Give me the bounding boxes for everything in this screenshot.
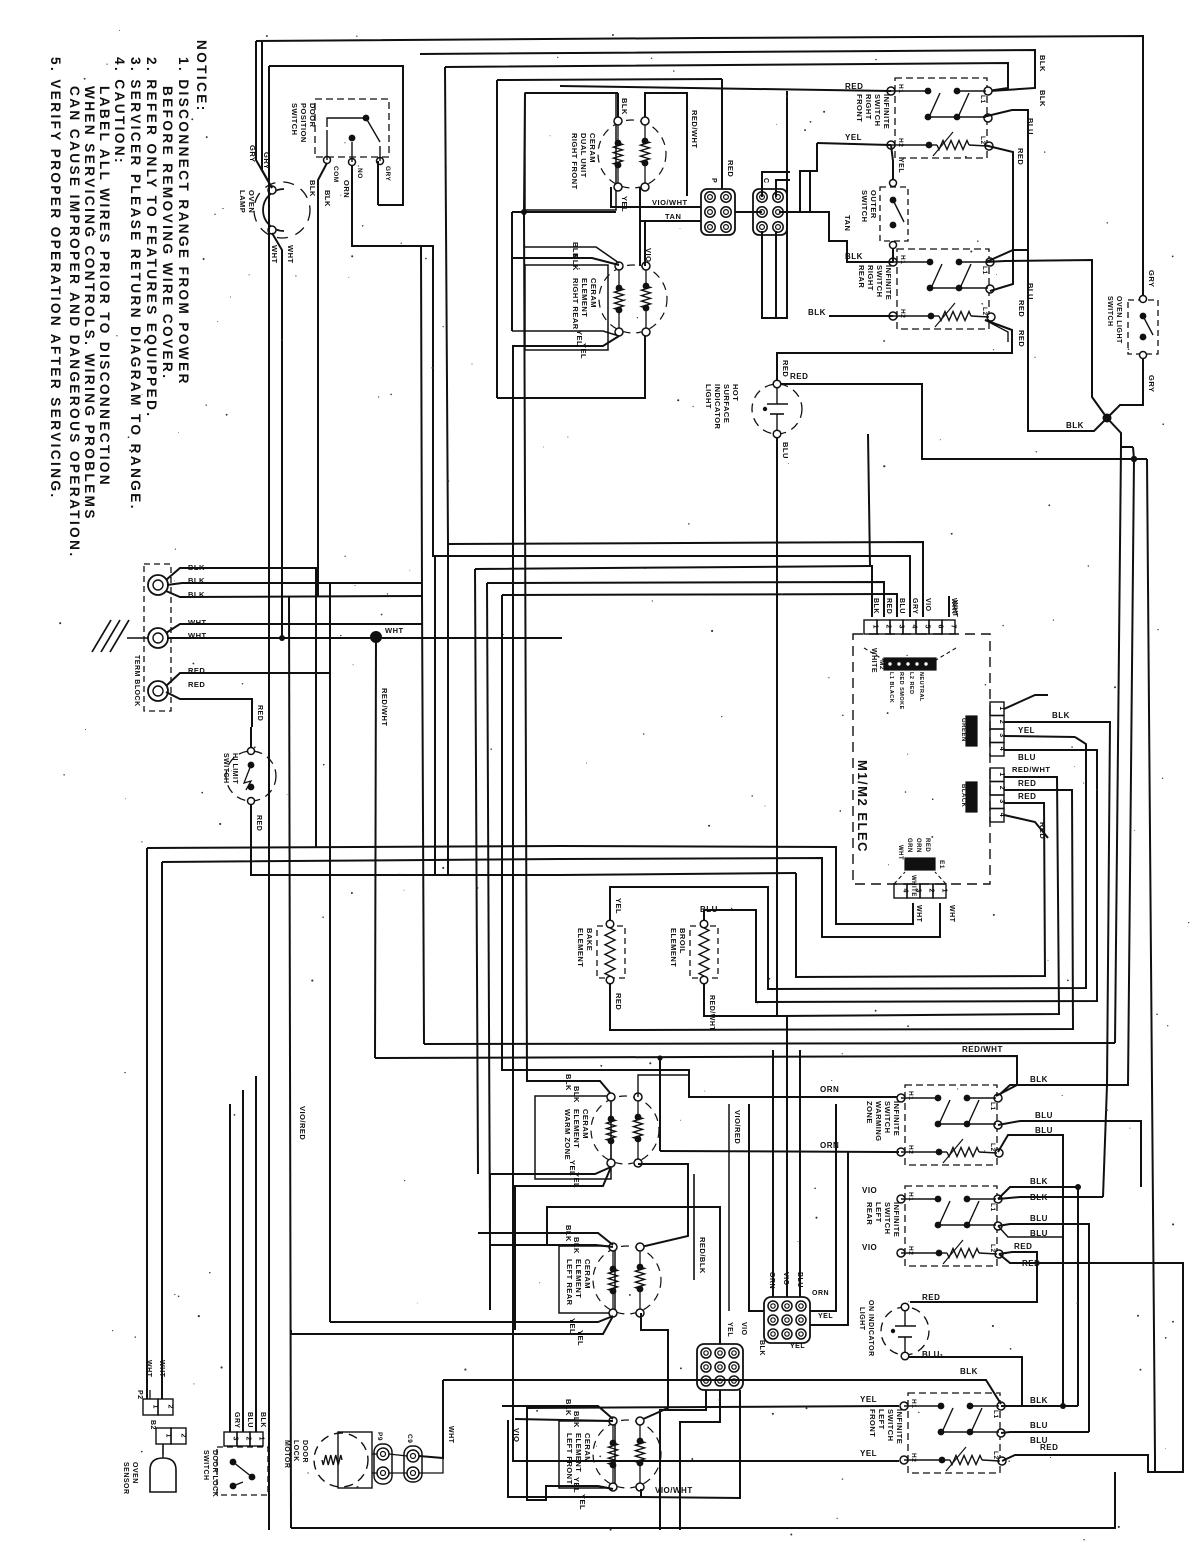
svg-text:4. CAUTION:: 4. CAUTION:	[112, 57, 127, 165]
wire BLK1	[166, 568, 316, 848]
wire broil top	[704, 750, 1097, 1002]
wire conn1-conn2	[735, 211, 762, 213]
element ceram element warm zone	[535, 1096, 611, 1179]
svg-text:LEFT: LEFT	[874, 1202, 883, 1223]
wire right vert V2	[998, 447, 1134, 1096]
wire dl gry up	[229, 1104, 231, 1432]
svg-text:WHT: WHT	[385, 626, 404, 635]
E1 connector bar	[905, 858, 935, 870]
wire dl blk up	[255, 1076, 257, 1432]
svg-text:VIO: VIO	[862, 1186, 877, 1195]
svg-text:5. VERIFY PROPER OPERATION AFT: 5. VERIFY PROPER OPERATION AFTER SERVICI…	[48, 57, 63, 500]
wire left bus down2	[161, 862, 163, 1399]
wire top trunk T3	[445, 63, 1008, 91]
svg-text:BLK: BLK	[1030, 1193, 1048, 1202]
junction dot 459	[1131, 456, 1137, 462]
door lock motor	[314, 1433, 368, 1487]
wire vert 290	[289, 597, 291, 1528]
svg-text:WARMING: WARMING	[874, 1101, 883, 1142]
wire door switch frame	[269, 66, 403, 205]
svg-text:L2 RED: L2 RED	[908, 672, 914, 695]
wire bus y594	[502, 594, 897, 617]
wire vio wht right	[641, 1390, 740, 1498]
connector 9-pin bottom	[697, 1344, 743, 1390]
svg-text:BLU: BLU	[898, 598, 905, 614]
wire blk rr L1a	[986, 250, 1028, 262]
junction 660 1058	[657, 1055, 662, 1060]
svg-text:TAN: TAN	[665, 212, 681, 221]
svg-text:RED: RED	[726, 160, 735, 177]
svg-text:CERAM: CERAM	[583, 1259, 592, 1289]
wire vert 422	[421, 246, 424, 1044]
svg-text:L1: L1	[992, 1410, 999, 1419]
wire vert 478	[475, 569, 478, 1174]
wire lr L2 blu2	[998, 1226, 1063, 1237]
wire WHT from oven lamp	[272, 233, 282, 638]
wire lr L3 red	[910, 1252, 1037, 1302]
wire dl mid links	[230, 1461, 233, 1463]
wire motor to p9	[372, 1453, 377, 1455]
svg-text:L2: L2	[981, 307, 988, 316]
svg-text:WHITE: WHITE	[910, 875, 916, 897]
svg-text:RED: RED	[614, 993, 623, 1010]
svg-text:RED/WHT: RED/WHT	[380, 688, 389, 727]
wire c2 up1	[762, 172, 790, 197]
wire c9b up1	[772, 1050, 774, 1297]
wire lf blk right	[1001, 1405, 1078, 1407]
svg-text:3: 3	[998, 733, 1005, 737]
svg-text:RED: RED	[924, 838, 930, 852]
svg-text:GRY: GRY	[233, 1412, 240, 1428]
svg-text:C9: C9	[406, 1434, 413, 1443]
wire wz L2 blu	[998, 1135, 1063, 1406]
svg-text:RED/BLK: RED/BLK	[698, 1237, 707, 1274]
svg-text:YEL: YEL	[614, 898, 623, 914]
svg-text:BLK: BLK	[1066, 421, 1084, 430]
svg-text:L1 BLACK: L1 BLACK	[888, 672, 894, 703]
svg-text:WHT: WHT	[948, 905, 955, 923]
svg-text:RED: RED	[1017, 330, 1026, 347]
svg-text:ON INDICATOR: ON INDICATOR	[867, 1300, 874, 1357]
wire c9a pins down2	[680, 1390, 720, 1530]
svg-text:WHT: WHT	[447, 1426, 454, 1444]
svg-text:GRY: GRY	[248, 145, 257, 162]
wire c9b left	[749, 1104, 764, 1311]
wire right long down	[1141, 1120, 1143, 1122]
svg-text:BLU: BLU	[1030, 1214, 1048, 1223]
wire trunk y1058	[375, 1056, 1017, 1096]
svg-text:BLK: BLK	[758, 1340, 765, 1356]
wire lf blk long	[443, 1380, 1001, 1404]
wire green p3 YEL	[1004, 736, 1075, 737]
svg-text:WHT: WHT	[270, 245, 279, 264]
connector black 4-pin	[990, 768, 1004, 782]
svg-text:SWITCH: SWITCH	[222, 753, 229, 784]
wire bake top	[610, 737, 1086, 989]
wire broil bottom	[704, 777, 1059, 1016]
oven lamp	[263, 189, 284, 231]
svg-text:VIO/RED: VIO/RED	[733, 1110, 742, 1144]
svg-text:SENSOR: SENSOR	[122, 1462, 129, 1495]
svg-text:H2: H2	[907, 1246, 914, 1255]
svg-text:GRY: GRY	[384, 166, 391, 182]
svg-text:BLK: BLK	[1038, 55, 1047, 72]
svg-text:YEL: YEL	[726, 1322, 733, 1337]
svg-text:C: C	[762, 178, 769, 184]
svg-text:2: 2	[998, 786, 1005, 790]
connector green 4-pin	[990, 702, 1004, 716]
svg-text:WHT: WHT	[188, 618, 207, 627]
svg-text:ELEMENT: ELEMENT	[576, 928, 585, 967]
svg-text:H1: H1	[897, 84, 904, 93]
svg-text:1: 1	[941, 889, 948, 893]
svg-text:BLU: BLU	[1035, 1111, 1053, 1120]
wire c2 bottom loop	[762, 91, 787, 318]
wire c2 up2	[776, 180, 790, 197]
wire wz H2	[659, 1058, 661, 1151]
svg-text:DOOR LOCK: DOOR LOCK	[211, 1450, 218, 1497]
svg-text:RED/WHT: RED/WHT	[962, 1045, 1003, 1054]
svg-text:P2: P2	[136, 1390, 143, 1400]
svg-text:CAN CAUSE IMPROPER AND DANGERO: CAN CAUSE IMPROPER AND DANGEROUS OPERATI…	[67, 86, 82, 559]
wire c9b up2	[786, 1016, 788, 1297]
wire red rr L3	[779, 320, 1012, 353]
svg-text:WHT: WHT	[915, 905, 922, 923]
wire GRY door switch	[377, 161, 379, 205]
wire c9 b right	[419, 1458, 443, 1473]
svg-text:L1: L1	[981, 266, 988, 275]
element ceram dual unit right front	[525, 93, 616, 210]
svg-text:L2: L2	[992, 1451, 999, 1460]
wire blk rr2	[512, 258, 619, 265]
svg-text:H2: H2	[899, 309, 906, 318]
svg-text:SWITCH: SWITCH	[860, 190, 869, 223]
element ceram element right rear	[525, 265, 608, 350]
svg-text:RED: RED	[1022, 1259, 1040, 1268]
wire lr L3 red2	[999, 1254, 1183, 1472]
svg-text:LIGHT: LIGHT	[704, 384, 713, 409]
element ceram element left rear	[559, 1246, 615, 1313]
svg-text:RED SMOKE: RED SMOKE	[898, 672, 904, 710]
M2 connector bar	[884, 658, 936, 670]
svg-text:INFINITE: INFINITE	[892, 1101, 901, 1136]
svg-text:LAMP: LAMP	[238, 190, 247, 213]
wire rf elem top wire2	[645, 93, 687, 196]
wire vert 870 blkx	[868, 434, 870, 566]
wire GRY to oven lamp	[256, 41, 272, 188]
wire rf elem bot to conn	[611, 187, 701, 207]
wire green p2 BLK	[1004, 722, 1110, 1197]
svg-text:YEL: YEL	[897, 158, 904, 173]
svg-text:L2: L2	[989, 1143, 996, 1152]
wire bus y542	[448, 542, 923, 617]
svg-text:YEL: YEL	[860, 1449, 877, 1458]
svg-text:BLK: BLK	[572, 1086, 581, 1103]
svg-text:ORN: ORN	[812, 1290, 829, 1297]
svg-text:ELEMENT: ELEMENT	[580, 278, 589, 317]
svg-text:4: 4	[998, 813, 1005, 817]
svg-text:BLK: BLK	[808, 308, 826, 317]
svg-text:GRN: GRN	[906, 838, 912, 853]
svg-text:SWITCH: SWITCH	[883, 1101, 892, 1134]
junction lf blk	[1060, 1403, 1066, 1409]
wire yel rr2	[513, 336, 899, 1461]
svg-text:BEFORE REMOVING WIRE COVER.: BEFORE REMOVING WIRE COVER.	[160, 86, 175, 380]
svg-text:OVEN: OVEN	[247, 190, 256, 213]
svg-text:YEL: YEL	[860, 1395, 877, 1404]
svg-text:2: 2	[998, 720, 1005, 724]
svg-text:L1: L1	[989, 1203, 996, 1212]
junction lr blk	[1075, 1184, 1081, 1190]
svg-text:REAR: REAR	[865, 1202, 874, 1225]
wire rf box bottom	[512, 211, 616, 213]
svg-text:WARM ZONE: WARM ZONE	[563, 1109, 572, 1160]
broil element box	[690, 926, 718, 978]
broil element	[700, 920, 708, 928]
svg-text:MOTOR: MOTOR	[283, 1440, 290, 1468]
connector C1 6-pin	[753, 189, 787, 235]
svg-text:RIGHT: RIGHT	[864, 94, 873, 120]
wire red/blk stub	[693, 1174, 695, 1280]
junction rf	[521, 209, 527, 215]
svg-text:INFINITE: INFINITE	[895, 1409, 904, 1444]
svg-text:VIO: VIO	[740, 1322, 747, 1336]
svg-text:INDICATOR: INDICATOR	[713, 384, 722, 430]
wire top trunk T2	[420, 50, 1035, 91]
wire c9a pins down	[660, 1390, 706, 1530]
wire lr L2 blu	[998, 1224, 1089, 1432]
svg-text:GRY: GRY	[911, 598, 918, 614]
connector P2 connector	[143, 1399, 158, 1415]
wire RED into rf switch	[560, 86, 891, 91]
svg-text:BLU: BLU	[1030, 1229, 1048, 1238]
wire c9b right	[810, 1104, 836, 1311]
svg-text:2: 2	[167, 1405, 174, 1409]
wire p9 c9 b	[389, 1472, 407, 1474]
svg-text:3: 3	[998, 799, 1005, 803]
wire bake bottom	[610, 790, 1073, 1030]
connector board bottom 4-pin	[894, 884, 907, 898]
svg-text:RED: RED	[255, 815, 262, 831]
wire wz L1 blu	[998, 1121, 1141, 1187]
wire hsl blu down	[776, 437, 778, 1016]
svg-text:SURFACE: SURFACE	[722, 384, 731, 423]
svg-text:INFINITE: INFINITE	[882, 94, 891, 129]
bake element box	[597, 926, 625, 978]
junction X	[1103, 414, 1112, 423]
wire c2 right mid	[779, 171, 810, 212]
svg-text:ZONE: ZONE	[865, 1101, 874, 1124]
wire lr yel out2	[291, 1316, 613, 1334]
wire bottom loop	[291, 1472, 1115, 1528]
wire vert 448	[445, 67, 448, 875]
svg-text:BROIL: BROIL	[678, 928, 687, 954]
svg-text:RED: RED	[885, 598, 892, 614]
svg-text:FRONT: FRONT	[855, 94, 864, 122]
svg-text:M1/M2 ELEC: M1/M2 ELEC	[855, 760, 870, 853]
wire rr bottom	[497, 336, 645, 398]
svg-text:SWITCH: SWITCH	[883, 1202, 892, 1235]
wire vert 331	[329, 583, 331, 673]
wire X to oven light sw	[1107, 357, 1143, 418]
svg-text:CERAM: CERAM	[581, 1109, 590, 1139]
svg-text:SWITCH: SWITCH	[875, 265, 884, 298]
svg-text:RIGHT: RIGHT	[866, 265, 875, 291]
wire lf vio wht	[508, 1420, 641, 1497]
wire c2 b2	[775, 231, 777, 318]
svg-text:RED: RED	[1016, 148, 1025, 165]
wire outer to rr	[892, 248, 894, 262]
wire blk into rr H2	[829, 315, 893, 317]
svg-text:OUTER: OUTER	[869, 190, 878, 219]
wire p9 c9	[389, 1454, 407, 1456]
connector C9	[404, 1446, 422, 1482]
wire vert 490	[487, 583, 490, 1245]
connector P9	[374, 1444, 392, 1484]
svg-text:RED: RED	[781, 360, 790, 377]
svg-text:E1: E1	[938, 860, 945, 869]
svg-text:2: 2	[180, 1434, 187, 1438]
connector 7-pin strip	[864, 620, 877, 634]
svg-text:RED: RED	[1040, 1443, 1058, 1452]
svg-text:FRONT: FRONT	[868, 1409, 877, 1437]
wire lf red	[1002, 1455, 1155, 1472]
svg-text:CERAM: CERAM	[589, 278, 598, 308]
wire yel-left branch	[800, 143, 817, 212]
svg-text:GRY: GRY	[1147, 375, 1156, 392]
svg-text:L2: L2	[979, 136, 986, 145]
svg-text:YEL: YEL	[790, 1343, 805, 1350]
svg-text:YEL: YEL	[818, 1313, 833, 1320]
svg-text:COM: COM	[332, 166, 339, 183]
svg-text:VIO/WHT: VIO/WHT	[652, 198, 688, 207]
svg-text:ELEMENT: ELEMENT	[574, 1433, 583, 1472]
wire lamp branch	[262, 41, 272, 188]
svg-text:GREEN: GREEN	[960, 718, 966, 742]
wire RED2	[166, 692, 252, 727]
svg-text:ORN: ORN	[820, 1085, 839, 1094]
infinite switch warming zone	[905, 1085, 997, 1165]
wire rf elem bot2	[640, 187, 701, 221]
wire blk rr1	[524, 247, 619, 263]
wire wz elem t2	[638, 1075, 688, 1097]
svg-text:DOOR: DOOR	[308, 103, 317, 128]
wire ORN door switch	[352, 165, 910, 617]
svg-text:LEFT: LEFT	[877, 1409, 886, 1430]
wire BLK door switch	[318, 163, 327, 597]
wire pin7 wht	[948, 596, 950, 617]
wire c9b up3	[799, 1050, 801, 1297]
svg-text:H1: H1	[910, 1399, 917, 1408]
green connector bar	[966, 716, 977, 746]
wire c9 wht up	[419, 1380, 443, 1458]
wire onl blu	[909, 1357, 1022, 1406]
svg-text:LOCK: LOCK	[292, 1440, 299, 1462]
wire lr blk in2	[490, 1245, 613, 1247]
svg-text:ORN: ORN	[915, 838, 921, 853]
wire bus y567	[475, 566, 872, 617]
wire rf H2 to outer	[891, 145, 893, 180]
wire hsl top up	[777, 353, 1012, 381]
svg-text:RED: RED	[1018, 779, 1036, 788]
svg-text:P: P	[710, 178, 717, 183]
junction WHT	[370, 631, 382, 643]
black connector bar	[966, 782, 977, 812]
wire lr blk in1	[478, 1233, 613, 1245]
svg-text:INFINITE: INFINITE	[892, 1202, 901, 1237]
wire RED1	[166, 673, 330, 1322]
infinite switch right front	[895, 78, 987, 158]
svg-text:POSITION: POSITION	[299, 103, 308, 143]
svg-text:ELEMENT: ELEMENT	[574, 1259, 583, 1298]
svg-text:BLK: BLK	[1030, 1075, 1048, 1084]
wire BLK2	[167, 583, 422, 585]
wire lf blk in2	[515, 1419, 613, 1421]
wire rf elem top wire	[617, 93, 619, 117]
door lock switch	[217, 1447, 268, 1495]
wire hi limit top	[250, 727, 252, 748]
svg-text:GRY: GRY	[1147, 270, 1156, 287]
wire red rf down	[984, 145, 1013, 291]
svg-text:YEL: YEL	[1018, 726, 1035, 735]
oven sensor	[162, 1444, 164, 1458]
svg-text:RIGHT FRONT: RIGHT FRONT	[570, 133, 579, 190]
wire rr elem t2 up	[644, 221, 646, 266]
svg-text:HI LIMIT: HI LIMIT	[231, 753, 238, 784]
svg-text:3. SERVICER PLEASE RETURN DIAG: 3. SERVICER PLEASE RETURN DIAGRAM TO RAN…	[128, 57, 143, 511]
svg-text:DUAL UNIT: DUAL UNIT	[579, 133, 588, 178]
svg-text:7: 7	[950, 625, 957, 629]
svg-text:BLK: BLK	[1038, 90, 1047, 107]
svg-text:YEL: YEL	[845, 133, 862, 142]
svg-text:VIO: VIO	[512, 1428, 521, 1442]
wire tan loop	[810, 212, 893, 262]
svg-text:BLK: BLK	[259, 1412, 266, 1428]
svg-text:BLK: BLK	[323, 190, 332, 207]
svg-text:INFINITE: INFINITE	[884, 265, 893, 300]
svg-text:BLK: BLK	[1052, 711, 1070, 720]
oven light switch	[1128, 300, 1158, 354]
element ceram element left front	[559, 1421, 615, 1488]
svg-text:WHT: WHT	[145, 1360, 152, 1378]
svg-text:BLK: BLK	[1030, 1177, 1048, 1186]
svg-text:BLU: BLU	[1018, 753, 1036, 762]
infinite switch left rear	[905, 1186, 997, 1266]
wire rr L3 red2	[985, 320, 1008, 342]
infinite switch left front	[908, 1393, 1000, 1473]
svg-text:RED: RED	[256, 705, 263, 721]
connector 9-pin right	[764, 1297, 810, 1343]
wire bus y848	[147, 846, 913, 924]
svg-text:H1: H1	[907, 1192, 914, 1201]
svg-text:TERM BLOCK: TERM BLOCK	[133, 655, 140, 707]
svg-text:LABEL ALL WIRES PRIOR TO DISCO: LABEL ALL WIRES PRIOR TO DISCONNECTION	[97, 86, 112, 487]
wire b2 bulb	[162, 1444, 164, 1455]
junction lamp wht	[279, 635, 285, 641]
wire p2 wires up	[149, 1390, 151, 1399]
svg-text:ORN: ORN	[342, 180, 351, 198]
wire hi limit bottom	[251, 804, 796, 875]
svg-text:YEL: YEL	[620, 196, 629, 212]
svg-text:ELEMENT: ELEMENT	[669, 928, 678, 967]
wire yel rr1	[512, 331, 619, 336]
svg-text:YEL: YEL	[576, 1330, 585, 1346]
svg-text:BLU: BLU	[246, 1412, 253, 1428]
wire wz yel out	[490, 1167, 611, 1310]
wire trunk y1044	[424, 1043, 1115, 1044]
wire top trunk T1	[256, 36, 1143, 297]
wire right vert V1	[1115, 447, 1121, 1043]
